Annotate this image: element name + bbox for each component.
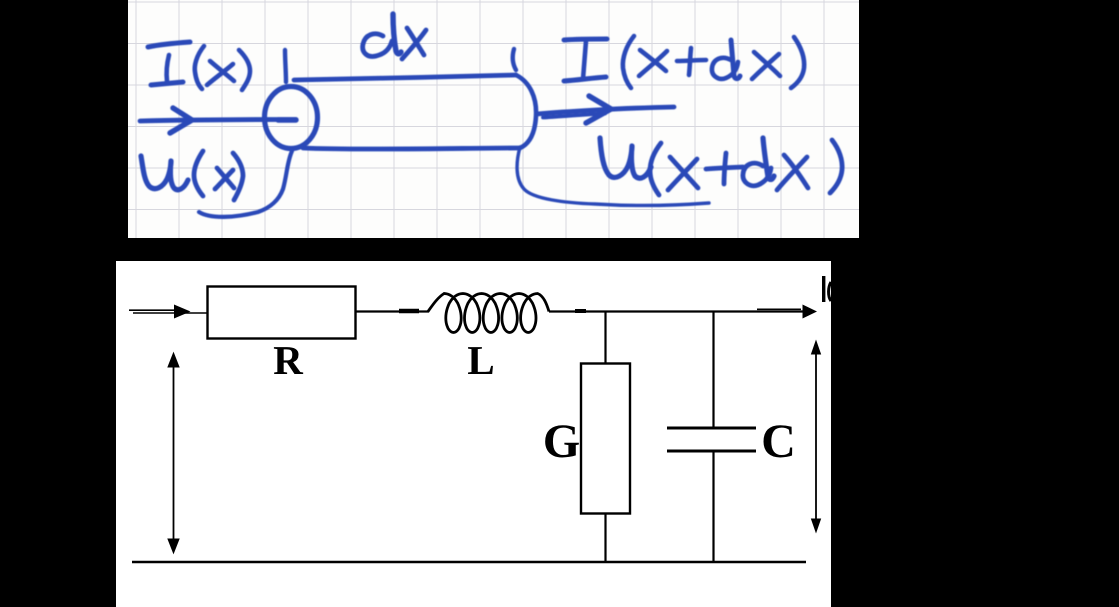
swoosh under U(x) <box>199 151 292 217</box>
label G <box>545 425 579 457</box>
paper grid <box>128 0 859 238</box>
tick mark right <box>513 49 516 70</box>
G branch wire bottom <box>604 514 606 564</box>
wire L to output <box>549 310 803 312</box>
conductance G branch wire top <box>604 312 606 365</box>
output arrowhead <box>803 305 818 319</box>
label dx <box>363 14 426 59</box>
capacitor C branch wire top <box>712 312 714 429</box>
label U(x) <box>141 151 243 200</box>
capacitor C plates <box>667 428 756 451</box>
C branch wire bottom <box>712 451 714 563</box>
circuit: input wire <box>129 310 207 313</box>
transmission line cylinder <box>265 75 537 149</box>
exit wire with arrow <box>537 96 674 123</box>
thick dash after L <box>575 309 586 313</box>
cut-off label I( <box>822 276 831 302</box>
thick dash before L <box>399 309 419 314</box>
conductance G <box>581 364 630 514</box>
inductor L <box>428 294 549 333</box>
output wire upper line <box>757 308 801 310</box>
swoosh to U(x+dx) <box>517 147 709 205</box>
sketch paper panel <box>128 0 859 238</box>
right voltage arrow <box>812 341 821 532</box>
label R <box>274 347 303 374</box>
label I(x) <box>148 42 250 90</box>
wire R to L <box>356 310 430 312</box>
resistor R <box>208 287 356 339</box>
circuit panel <box>116 261 831 607</box>
label L <box>468 347 493 374</box>
tick mark left <box>285 50 286 82</box>
left voltage arrow <box>168 353 179 553</box>
input arrowhead <box>174 305 191 319</box>
bottom return wire <box>132 561 806 564</box>
current arrow I(x) <box>140 108 296 133</box>
hand-drawn sketch ink <box>140 14 842 217</box>
label C <box>764 425 793 457</box>
label I(x+dx) <box>564 36 804 88</box>
label U(x+dx) <box>600 138 842 195</box>
